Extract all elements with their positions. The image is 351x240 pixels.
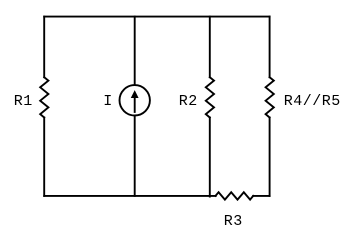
current source arrow: [134, 97, 136, 113]
wire bottom rail: [44, 195, 216, 197]
wire current source branch top: [134, 17, 136, 85]
wire left branch top: [43, 17, 45, 78]
resistor R1: [40, 77, 48, 117]
label I: [103, 94, 113, 109]
label R3: [224, 214, 243, 229]
wire current source branch bottom: [134, 116, 136, 196]
wire left branch bottom: [43, 118, 45, 196]
current source I (circle): [120, 85, 150, 115]
wire right branch bottom: [269, 118, 271, 196]
wire top rail: [44, 16, 269, 18]
label R2: [179, 94, 198, 109]
wire R2 branch bottom: [209, 118, 211, 197]
wire R3 to right branch: [253, 195, 269, 197]
wire R2 branch top: [209, 17, 211, 78]
resistor R2: [206, 77, 214, 117]
label R4//R5: [284, 94, 341, 109]
wire right branch top: [269, 17, 271, 78]
resistor R4//R5: [266, 77, 274, 117]
resistor R3: [216, 192, 254, 199]
label R1: [14, 94, 33, 109]
